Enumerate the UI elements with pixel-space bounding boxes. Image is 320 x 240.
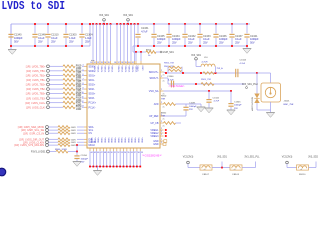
wire C1337 bottom lead [231, 38, 233, 46]
junction C1336 gnd rail [215, 45, 217, 47]
svg-text:25V: 25V [38, 41, 43, 44]
svg-text:25V: 25V [85, 41, 90, 44]
pin stub top pin 34 [106, 61, 108, 64]
wire left bank ground rail [11, 45, 90, 47]
junction C1337 gnd rail [231, 45, 233, 47]
junction C1340 ground rail [10, 45, 12, 47]
pin stub U1 left pin 20 [84, 126, 87, 128]
junction VREG stub y130 [165, 129, 167, 131]
pin circle LVDS_TB2+ [47, 83, 50, 86]
svg-text:48: 48 [104, 152, 106, 154]
wire LVDS_CLK+ to R927 [49, 102, 63, 104]
wire R921 to U1 [82, 74, 84, 76]
svg-text:R910: R910 [161, 95, 167, 97]
capacitor C1304 [79, 34, 84, 37]
svg-text:VSSD: VSSD [120, 138, 122, 144]
power port VCC B [286, 161, 289, 164]
junction term left [165, 72, 167, 74]
junction VREG stub y136 [165, 135, 167, 137]
svg-text:VSSD: VSSD [124, 138, 126, 144]
resistor R919 [63, 65, 75, 68]
svg-text:J1001: J1001 [284, 101, 291, 103]
junction 3V3_SD1 stem [127, 23, 129, 25]
junction C1335 rail [153, 23, 155, 25]
wire left bank closure [89, 24, 91, 46]
junction C1310 rail [47, 23, 49, 25]
resistor R923 [63, 83, 75, 86]
ground C1050 [73, 162, 81, 167]
wire VDD drop to pin 30 [92, 24, 94, 61]
wire R919 to U1 [82, 65, 84, 67]
junction C1333 rail [199, 23, 201, 25]
junction C1332 gnd rail [184, 45, 186, 47]
svg-text:25V: 25V [157, 42, 162, 45]
junction MCLK pullup tap [76, 144, 78, 146]
junction rail drop x100 [99, 23, 101, 25]
junction rail drop x120.5 [120, 23, 122, 25]
wire 3V3_SD1_PLL stem [255, 162, 257, 168]
svg-text:VDDO: VDDO [136, 66, 138, 72]
pin stub U1 bottom pin 55 [126, 148, 128, 151]
svg-text:PCLK-: PCLK- [89, 106, 96, 109]
capacitor C1331 [135, 34, 140, 37]
svg-text:VDDO1: VDDO1 [111, 66, 113, 74]
wire bottom pin 56 to bus [129, 151, 131, 167]
pin circle LVDS_CLK+ [47, 101, 50, 104]
svg-text:52: 52 [117, 152, 119, 154]
svg-text:[1R] LVDS_TB1-: [1R] LVDS_TB1- [26, 79, 45, 82]
ground left bank [8, 50, 16, 55]
wire C1342 bottom lead [208, 103, 210, 108]
svg-text:VSSD: VSSD [134, 138, 136, 144]
wire bottom pin 46 to bus [96, 151, 98, 167]
wire GSPI drop to top pin [135, 52, 137, 61]
svg-text:VSO_NA: VSO_NA [149, 90, 159, 93]
pin stub U1 bottom pin 47 [99, 148, 101, 151]
wire 3V3_SD2 stem [315, 162, 317, 168]
junction 3V3_SD1 tap [221, 167, 223, 169]
pin stub top pin 42 [140, 61, 142, 64]
pin stub U1 bottom pin 45 [92, 148, 94, 151]
wire VDD drop to pin 40 [130, 24, 132, 61]
svg-text:VSSD: VSSD [90, 138, 92, 144]
wire C1331 bottom lead [137, 38, 139, 46]
svg-text:⌠A: ⌠A [162, 79, 165, 82]
capacitor C1344 [236, 69, 238, 77]
svg-text:25V: 25V [235, 42, 240, 45]
svg-text:2: 2 [161, 70, 162, 72]
svg-text:4: 4 [83, 65, 84, 67]
ground right bank [243, 49, 251, 54]
pin stub U1 bottom pin 44 [89, 148, 91, 151]
capacitor C1335 [151, 34, 156, 37]
wire LVDS_TB2+ to R923 [49, 84, 63, 86]
wire L10 in [196, 66, 201, 68]
wire LVDS_CLK- to R928 [49, 106, 63, 108]
junction rail drop x131 [130, 23, 132, 25]
svg-text:54: 54 [124, 152, 126, 154]
junction bottom bus pin 51 [113, 166, 115, 168]
svg-text:[1R] LVDS_TB2+: [1R] LVDS_TB2+ [26, 84, 46, 87]
wire R910 out [176, 103, 202, 105]
power port 3V3_SD1 [103, 19, 106, 22]
wire LVDS_DIR_OUT to R935 [48, 138, 58, 140]
svg-text:SDI1-: SDI1- [89, 79, 95, 82]
wire R935 to U1 [77, 138, 84, 140]
svg-text:3V3_SD1: 3V3_SD1 [123, 15, 134, 17]
capacitor C1337 [229, 34, 234, 37]
pin circle GSPI_SDA_MOSI [46, 126, 49, 129]
logo blue dot [0, 168, 6, 176]
svg-text:8: 8 [83, 83, 84, 85]
junction R908 in [200, 72, 202, 74]
svg-text:C1340: C1340 [14, 34, 22, 37]
svg-text:25V: 25V [69, 41, 74, 44]
resistor R924 [63, 88, 75, 91]
junction C1332 rail [184, 23, 186, 25]
junction C1346 ground rail [34, 45, 36, 47]
wire GSPI to label [156, 51, 160, 53]
pin circle LVDS_SYS_MCLKIN [46, 144, 49, 147]
capacitor C1346 [32, 34, 37, 37]
resistor R927 [63, 101, 75, 104]
wire 3V3_SD1 port stem [127, 21, 129, 24]
svg-text:5: 5 [83, 69, 84, 71]
wire C1091 riser [185, 111, 187, 117]
wire bottom pin 55 to bus [126, 151, 128, 167]
svg-text:R942: R942 [161, 112, 167, 114]
pin stub U1 bottom pin 56 [129, 148, 131, 151]
pin stub U1 right pin VREG1 [160, 129, 164, 131]
svg-text:⌠A: ⌠A [162, 105, 165, 108]
svg-text:100R: 100R [71, 142, 76, 144]
svg-text:2: 2 [161, 128, 162, 130]
svg-text:⨯GS1582-IB⨯: ⨯GS1582-IB⨯ [142, 153, 162, 157]
node GSPI_SD1 flag [160, 51, 162, 53]
resistor R920 [63, 69, 75, 72]
pin stub U1 left pin 22 [84, 132, 87, 134]
wire C1341 top lead [246, 24, 248, 33]
svg-text:75R_A: 75R_A [217, 67, 224, 70]
wire VSO_NA segment [164, 90, 232, 92]
wire UP_REF segment [164, 115, 187, 117]
svg-text:45: 45 [94, 152, 96, 154]
wire C1304 top lead [81, 24, 83, 33]
junction GSPI drop 2 [140, 51, 142, 53]
pin stub U1 bottom pin 57 [133, 148, 135, 151]
node 3V3_SD1_PGd flag [246, 87, 248, 89]
pin stub top pin 33 [103, 61, 105, 64]
capacitor C1341 [244, 34, 249, 37]
wire C1091 top lead [185, 104, 187, 107]
pin stub U1 left pin 4 [84, 65, 87, 67]
wire GSPI_CS_IN to R933 [48, 132, 58, 134]
svg-text:UP_CB: UP_CB [151, 122, 159, 125]
wire R926 to U1 [82, 97, 84, 99]
pin stub U1 left pin 26 [84, 144, 87, 146]
svg-text:4.7uF: 4.7uF [214, 101, 220, 103]
svg-text:R909_75R: R909_75R [201, 79, 211, 81]
pin stub U1 bottom pin 52 [116, 148, 118, 151]
wire R940 to C1050 [68, 151, 77, 153]
svg-text:C1304: C1304 [85, 34, 93, 37]
svg-text:VSSD: VSSD [130, 138, 132, 144]
svg-text:⌠A: ⌠A [162, 73, 165, 76]
svg-text:tran: tran [91, 59, 94, 62]
svg-text:[1R] LVDS_TB2-: [1R] LVDS_TB2- [26, 88, 45, 91]
pin circle LVDS_TB0+ [47, 65, 50, 68]
wire C1310 top lead [47, 24, 49, 33]
wire R936 to U1 [77, 141, 84, 143]
svg-text:[1R] LVDS_TB3+: [1R] LVDS_TB3+ [26, 93, 46, 96]
pin stub top GSPI pin [135, 61, 137, 64]
svg-text:[1R] LVDS_SYS_MCLKIN: [1R] LVDS_SYS_MCLKIN [14, 144, 44, 147]
connector J1001 center pin [270, 87, 272, 92]
svg-text:[1R] LVDS_TB0+: [1R] LVDS_TB0+ [26, 65, 46, 68]
junction GSPI drop 1 [135, 51, 137, 53]
junction C1304 ground rail [81, 45, 83, 47]
pin circle LVDS_CLKIN [46, 141, 49, 144]
svg-text:GSPI_SD1: GSPI_SD1 [163, 52, 175, 54]
resistor R922 [63, 79, 75, 82]
resistor R936 [58, 141, 70, 144]
wire FB110 out [309, 167, 317, 169]
junction bottom bus pin 50 [109, 166, 111, 168]
pin stub top pin 40 [130, 61, 132, 64]
wire C1346 bottom lead [34, 38, 36, 46]
svg-text:VSSD: VSSD [140, 138, 142, 144]
connector J1001 BNC body [261, 83, 281, 102]
svg-text:SDI2-: SDI2- [89, 88, 95, 91]
junction bottom bus pin 44 [89, 166, 91, 168]
svg-text:BNC_75R: BNC_75R [284, 104, 294, 106]
wire R924 to U1 [82, 88, 84, 90]
pin stub U1 left pin 12 [84, 102, 87, 104]
junction C1300 rail [65, 23, 67, 25]
junction bottom bus pin 59 [139, 166, 141, 168]
wire BNC return [257, 109, 271, 111]
wire C1342 top lead [208, 91, 210, 99]
svg-text:55: 55 [127, 152, 129, 154]
svg-text:VDDO1: VDDO1 [97, 66, 99, 74]
svg-text:1000pF: 1000pF [189, 106, 197, 108]
svg-text:2: 2 [161, 139, 162, 141]
svg-text:4.7uF: 4.7uF [240, 63, 246, 65]
wire GSPI_SDA_MOSI to R931 [48, 126, 58, 128]
svg-text:VSSD: VSSD [100, 138, 102, 144]
junction C1304 rail [81, 23, 83, 25]
junction rail drop x96.5 [96, 23, 98, 25]
svg-text:VDDO1: VDDO1 [124, 66, 126, 74]
junction bottom bus pin 47 [99, 166, 101, 168]
pin stub top pin 37 [120, 61, 122, 64]
wire VCC A stem [187, 164, 189, 168]
pin circle LVDS_TB0- [47, 69, 50, 72]
svg-text:⌠A: ⌠A [162, 117, 165, 120]
ferrite bead FB103 [230, 165, 242, 171]
svg-text:AVD: AVD [154, 103, 159, 106]
junction bottom bus pin 54 [123, 166, 125, 168]
wire bottom pin 49 to bus [106, 151, 108, 167]
wire SDOUT- segment [168, 83, 245, 85]
wire R905 R906 left tie [167, 67, 169, 73]
svg-text:3V3_SD1: 3V3_SD1 [191, 55, 202, 57]
svg-text:100R: 100R [76, 109, 82, 111]
wire C1333 bottom lead [199, 38, 201, 46]
wire R932 to U1 [77, 129, 84, 131]
svg-text:100R: 100R [71, 127, 76, 129]
svg-text:1000pF: 1000pF [81, 158, 89, 160]
wire R923 to U1 [82, 84, 84, 86]
svg-text:9: 9 [83, 87, 84, 89]
wire R922 to U1 [82, 79, 84, 81]
capacitor C1340 [8, 34, 13, 37]
wire VDD drop to pin 38 [123, 24, 125, 61]
wire R905 R906 right tie [181, 67, 183, 73]
wire VDD drop to pin 33 [103, 24, 105, 61]
svg-text:CS: CS [89, 132, 93, 135]
svg-text:100R: 100R [71, 133, 76, 135]
svg-text:100R: 100R [71, 145, 76, 147]
svg-text:51: 51 [114, 152, 116, 154]
wire VDD drop to pin 36 [116, 24, 118, 61]
wire C1300 top lead [65, 24, 67, 33]
wire R927 to U1 [82, 102, 84, 104]
wire LVDS_TB1+ to R921 [49, 74, 63, 76]
resistor R932 [58, 129, 70, 132]
junction 3V3_SD1 stem [103, 23, 105, 25]
wire bottom pin 53 to bus [119, 151, 121, 167]
wire VDD drop to pin 34 [106, 24, 108, 61]
junction C1334 gnd rail [168, 45, 170, 47]
junction bottom bus pin 53 [119, 166, 121, 168]
svg-text:3V3_SD1: 3V3_SD1 [217, 156, 228, 158]
resistor R908 [203, 72, 215, 74]
wire P3V3 to R940 [49, 151, 56, 153]
svg-text:VSSD: VSSD [137, 138, 139, 144]
wire VDD drop to pin 37 [120, 24, 122, 61]
pin stub U1 right pin GND [160, 143, 164, 145]
pin stub U1 right pin GND [160, 140, 164, 142]
svg-text:46: 46 [97, 152, 99, 154]
resistor R928 [63, 106, 75, 109]
svg-text:VDDO1: VDDO1 [131, 66, 133, 74]
svg-text:2: 2 [161, 76, 162, 78]
pin stub top pin 41 [134, 61, 136, 64]
capacitor C1333 [197, 34, 202, 37]
wire R937 to U1 [77, 144, 84, 146]
wire VDD drop to pin 32 [99, 24, 101, 61]
svg-text:VDDO1: VDDO1 [117, 66, 119, 74]
pin stub U1 bottom pin 54 [123, 148, 125, 151]
wire C1340 top lead [10, 24, 12, 33]
junction rail drop x127.5 [127, 23, 129, 25]
wire bottom pin 52 to bus [116, 151, 118, 167]
pin stub top pin 39 [127, 61, 129, 64]
svg-text:⌠A: ⌠A [162, 124, 165, 127]
svg-text:C1344: C1344 [240, 59, 247, 61]
pin stub top pin 36 [116, 61, 118, 64]
svg-text:SDI2+: SDI2+ [89, 84, 96, 87]
wire R933 to U1 [77, 132, 84, 134]
wire R942 out [176, 122, 182, 124]
resistor R909 [201, 83, 214, 86]
ferrite bead FB107 [200, 165, 212, 171]
junction C1300 ground rail [65, 45, 67, 47]
pin stub U1 bottom pin 51 [112, 148, 114, 151]
wire bottom pin 50 to bus [109, 151, 111, 167]
capacitor C1334 [166, 34, 171, 37]
ferrite bead FB110 [297, 165, 309, 171]
svg-text:SDOUT+: SDOUT+ [149, 71, 159, 74]
svg-text:C1300: C1300 [69, 34, 77, 37]
pin stub U1 bottom pin 58 [136, 148, 138, 151]
wire 3V3_SD1 top rail [11, 23, 250, 25]
svg-text:C1050: C1050 [81, 155, 88, 157]
junction C1342 tap [208, 90, 210, 92]
wire VCC B to FB110 [287, 167, 297, 169]
wire bottom pin 58 to bus [136, 151, 138, 167]
power port VCC A [187, 161, 190, 164]
wire LVDS_CLKIN to R936 [48, 141, 58, 143]
junction C1331 gnd rail [137, 45, 139, 47]
svg-text:25V: 25V [188, 42, 193, 45]
capacitor C1332 [182, 34, 187, 37]
pin stub top pin 31 [96, 61, 98, 64]
resistor R940 [56, 150, 68, 153]
svg-text:C1346: C1346 [167, 76, 174, 78]
wire R931 to U1 [77, 126, 84, 128]
junction C1341 gnd corner [246, 45, 248, 47]
capacitor C1342 [206, 100, 211, 103]
pin stub U1 left pin 5 [84, 70, 87, 72]
svg-text:13: 13 [82, 106, 84, 108]
wire 3V3_SD1 flag stem [221, 162, 223, 168]
wire drop to top pin 2 [140, 52, 142, 61]
svg-text:6: 6 [83, 74, 84, 76]
wire R928 to U1 [82, 106, 84, 108]
junction rail drop x134.5 [134, 23, 136, 25]
svg-text:25V: 25V [172, 42, 177, 45]
svg-text:4.7uH: 4.7uH [202, 62, 208, 64]
pin stub U1 right pin SDOUT+ [160, 71, 164, 73]
junction rail drop x93 [92, 23, 94, 25]
diode D1 TVS [254, 94, 259, 104]
wire right bank ground rail [133, 45, 247, 47]
svg-text:53: 53 [121, 152, 123, 154]
resistor R933 [58, 132, 70, 135]
wire SDOUT+ to BNC [257, 72, 271, 74]
wire VDD drop to pin 31 [96, 24, 98, 61]
no-connect flag pin GND2 [163, 143, 166, 146]
pin circle GSPI_SCL_SE [46, 129, 49, 132]
svg-text:50V: 50V [14, 41, 19, 44]
pin stub U1 bottom pin 46 [96, 148, 98, 151]
wire GSPI_SCL_SE to R932 [48, 129, 58, 131]
resistor R931 [58, 126, 70, 129]
resistor R910 [164, 103, 176, 106]
wire C1346 top lead [34, 24, 36, 33]
wire C1050 top lead [76, 152, 78, 156]
svg-text:SDI0-: SDI0- [89, 70, 95, 73]
wire bottom pin 45 to bus [92, 151, 94, 167]
svg-text:10: 10 [82, 92, 84, 94]
svg-text:VCC(3V3): VCC(3V3) [183, 156, 194, 158]
svg-text:P3V3_LVDS1: P3V3_LVDS1 [31, 151, 46, 154]
wire FB103 out [242, 167, 256, 169]
svg-text:VSSD: VSSD [93, 138, 95, 144]
svg-text:1000pF: 1000pF [234, 105, 242, 107]
